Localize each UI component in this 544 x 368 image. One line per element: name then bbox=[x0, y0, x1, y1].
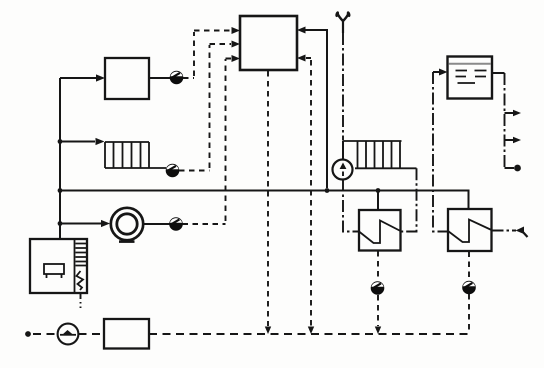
flow circle with up arrow bbox=[333, 160, 353, 180]
device box B2 bbox=[104, 319, 149, 349]
wire tank outlet right bbox=[492, 72, 505, 74]
node start dot bottom bus bbox=[25, 331, 31, 337]
HX1 inner zigzag bbox=[359, 221, 401, 244]
pump P1 double circle bbox=[111, 208, 143, 240]
wire S5 down to bottom bus corner (dashed) bbox=[468, 294, 470, 334]
junction dot trunk/pump branch bbox=[58, 221, 63, 226]
wire tank feed line (dash-dot) bbox=[433, 72, 448, 232]
wire controller right solid line from bus bbox=[305, 30, 327, 188]
flow indicator circle bottom bbox=[58, 324, 79, 345]
wire right distribution column (dash-dot) bbox=[504, 73, 506, 170]
sensor ball S2 bbox=[166, 164, 179, 177]
wire bus into box B2 (dashed) bbox=[79, 333, 105, 335]
wire S3 to controller input 3 (dashed) bbox=[183, 59, 232, 225]
stub arrow 2 bbox=[505, 139, 514, 141]
sensor ball S3 bbox=[170, 218, 183, 231]
wire B1 output bbox=[149, 77, 171, 79]
boiler inner door rect bbox=[44, 264, 64, 274]
junction dot trunk/radiator branch bbox=[58, 139, 63, 144]
wire branch to burner pump with arrow bbox=[60, 223, 101, 225]
boiler K1 body bbox=[30, 239, 87, 293]
wire controller right-bottom output (dashed, down arrow) bbox=[306, 58, 311, 326]
junction dot bus / HX1 top bbox=[376, 188, 381, 193]
consumer box B1 bbox=[105, 58, 149, 99]
wire branch to radiator R1 with arrow bbox=[60, 141, 95, 143]
boiler partition bbox=[74, 239, 76, 293]
wire dash-dot below circle to HX1 left input bbox=[343, 180, 359, 232]
boiler burner zigzag bbox=[77, 271, 84, 290]
boiler grate hatch bbox=[76, 244, 87, 266]
sensor ball S4 bbox=[371, 282, 384, 295]
stub arrow 1 bbox=[505, 112, 514, 114]
wire controller bottom output (dashed, down arrow) bbox=[267, 71, 269, 326]
radiator R2 top line bbox=[343, 140, 402, 142]
wire circle C2 stem solid to radiator R2 top bbox=[342, 141, 344, 161]
junction dot bus / controller line bbox=[325, 188, 330, 193]
wire S4 to bottom bus (dashed, down arrow) bbox=[377, 295, 379, 326]
junction dot bus left bbox=[58, 188, 63, 193]
wire bottom bus left segment (dashed) bbox=[33, 333, 57, 335]
boiler bottom stub (dash-dot) bbox=[80, 293, 82, 308]
wire supply trunk vertical bbox=[59, 78, 61, 239]
wire bottom bus main segment (dashed) bbox=[149, 333, 469, 335]
expansion tank T1 bbox=[448, 57, 493, 99]
wire branch to consumer box B1 with arrow bbox=[60, 77, 97, 79]
sensor ball S1 bbox=[170, 71, 183, 84]
heat exchanger HX1 box bbox=[359, 210, 401, 251]
wire antenna line (dash-dot) down to circle bbox=[342, 33, 344, 140]
controller box U1 bbox=[240, 16, 297, 70]
stub dot 3 bbox=[505, 167, 515, 169]
sensor ball S5 bbox=[463, 281, 476, 294]
wire return bus horizontal bbox=[60, 191, 469, 210]
wire radiator R2 right drop to HX1 right (dash-dot) bbox=[401, 168, 417, 231]
wire P1 output bbox=[144, 223, 171, 225]
HX2 inner zigzag bbox=[448, 220, 492, 243]
wire S2 to controller input 2 (dashed) bbox=[179, 44, 231, 171]
radiator R2 teeth and bottom bbox=[355, 141, 417, 168]
tank level dashes bbox=[456, 71, 487, 84]
wire HX2 right output (dash-dot with arrow mark) bbox=[492, 230, 517, 232]
wire S1 to controller input 1 (dashed) bbox=[183, 31, 231, 79]
wire HX1 bottom sensor line (dashed) bbox=[377, 251, 379, 281]
heat exchanger HX2 box bbox=[448, 209, 492, 251]
wire HX1 top stub bbox=[377, 191, 379, 211]
antenna fork outdoor sensor bbox=[338, 14, 344, 22]
radiator R1 bbox=[105, 142, 166, 168]
wire HX2 bottom sensor line (dashed) bbox=[468, 252, 470, 282]
